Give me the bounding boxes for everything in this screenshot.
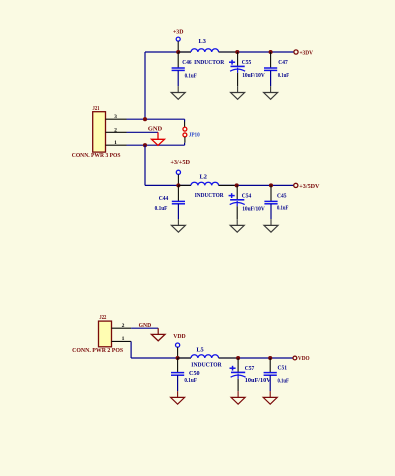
svg-text:0.1uF: 0.1uF [155,205,168,212]
svg-text:C57: C57 [245,365,255,372]
svg-text:C54: C54 [242,193,252,200]
svg-text:0.1uF: 0.1uF [278,72,290,79]
svg-text:C44: C44 [159,195,169,202]
svg-text:C51: C51 [278,364,288,371]
svg-text:JP10: JP10 [189,132,200,139]
svg-text:10uF/10V: 10uF/10V [245,377,271,384]
svg-text:INDUCTOR: INDUCTOR [194,59,224,66]
svg-text:0.1uF: 0.1uF [185,73,197,80]
svg-text:0.1uF: 0.1uF [277,205,289,212]
svg-text:C47: C47 [278,59,288,66]
svg-text:+3/5DV: +3/5DV [299,183,320,190]
svg-text:+3D: +3D [173,29,184,36]
svg-text:L3: L3 [199,38,206,45]
svg-text:10uF/10V: 10uF/10V [242,72,265,79]
svg-text:GND: GND [139,323,152,329]
svg-text:3: 3 [114,114,117,120]
svg-text:C55: C55 [242,59,252,66]
svg-text:J22: J22 [99,315,106,321]
svg-text:C45: C45 [277,193,287,200]
svg-text:CONN. PWR 2 POS: CONN. PWR 2 POS [72,348,124,354]
svg-text:J21: J21 [93,106,100,112]
svg-text:2: 2 [122,323,125,329]
svg-text:0.1uF: 0.1uF [184,377,197,384]
svg-text:L5: L5 [196,346,203,353]
svg-text:INDUCTOR: INDUCTOR [195,192,224,199]
svg-text:+3DV: +3DV [300,50,314,57]
svg-text:10uF/10V: 10uF/10V [242,206,265,213]
svg-text:1: 1 [122,336,125,342]
svg-text:INDUCTOR: INDUCTOR [191,362,222,369]
svg-text:+3/+5D: +3/+5D [170,159,190,166]
svg-text:1: 1 [114,140,117,146]
svg-text:GND: GND [148,127,162,133]
svg-text:VDO: VDO [298,355,310,362]
svg-text:VDD: VDD [173,333,186,340]
svg-text:L2: L2 [200,173,207,180]
svg-text:CONN. PWR 3 POS: CONN. PWR 3 POS [72,153,121,159]
svg-text:0.1uF: 0.1uF [278,378,290,385]
svg-text:2: 2 [114,127,117,133]
svg-text:C46: C46 [182,59,191,66]
